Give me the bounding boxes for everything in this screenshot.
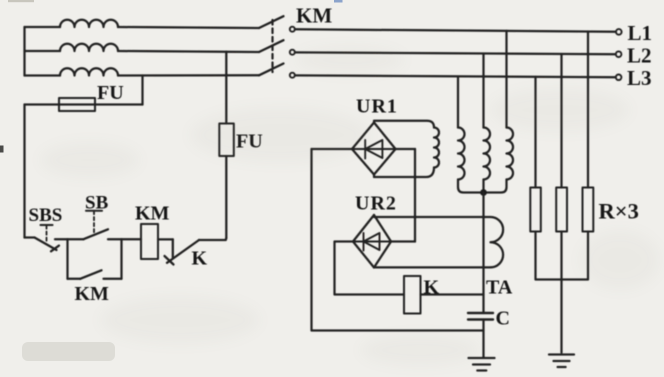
wire: KM coil to K contact [158,238,173,240]
resistor R1 lead from L3 [534,77,536,188]
KM fixed contact circle 1 [290,27,295,32]
wire: SB right terminal to KM coil [108,238,141,240]
wire: phase line 3 to KM contact [118,74,259,76]
wire: relay K to capacitor branch [421,293,484,295]
inductor: reactor winding 3 [507,128,514,180]
wire: riser to UR2 right vertex [391,240,415,242]
fuse FU1 wire (horizontal, control feed) [25,103,143,105]
wire: TA winding bottom to UR2 bottom [374,266,491,268]
contactor KM main contact blade 3 [259,64,284,76]
fuse FU2 body [219,124,234,157]
pushbutton SB (NO start) blade [84,229,109,239]
capacitor C top plate [468,312,493,314]
diode inside UR1: triangle [365,140,382,158]
wire: capacitor to ground [482,320,484,358]
diode inside UR2: triangle [364,233,380,250]
diode inside UR2: cathode bar [363,233,365,251]
svg-text:KM: KM [135,203,170,225]
inductor: reactor winding 2 [484,128,491,180]
wire: parallel branch left drop [66,239,68,279]
scan artifact: faint bleed-through patches [40,46,660,366]
scan artifact: left edge mark [0,146,4,153]
wire: phase line 2 right run to L2 [295,52,616,54]
pushbutton SBS actuator stem (dashed) [46,226,48,244]
wire: phase line 1 right run to L1 [295,29,616,31]
svg-text:KM: KM [296,4,332,28]
svg-text:TA: TA [486,277,513,299]
KM fixed contact circle 2 [290,50,295,55]
pushbutton SBS (NC stop): left lead [25,236,35,238]
wire: phase line 1 to KM contact [118,27,259,28]
wire: resistor 2 bottom [560,232,562,353]
scan artifact: blue tick top [334,0,343,3]
contact KM auxiliary (NO) blade [80,270,101,279]
rectifier U R 1 diamond [352,123,396,175]
terminal L1 circle [616,29,622,35]
pushbutton SB actuator bar [86,210,102,212]
wire: resistor bottoms to common bus [536,232,589,280]
inductor: motor winding phase 3 [60,68,118,75]
wire: FU2 down to K contact [225,156,227,238]
diode inside UR2: axis line [353,241,391,243]
contactor KM main contact blade 2 [259,40,284,52]
wire: phase line 1 left segment [25,26,61,28]
wire: KM aux branch bottom left [68,278,81,280]
node: star point junction dot [480,189,487,196]
pushbutton SBS actuator bar [41,224,53,226]
svg-text:L2: L2 [627,44,652,68]
terminal L2 circle [616,51,622,57]
KM contact linkage (dashed) [271,20,273,72]
contactor KM main contact blade 1 [259,16,284,28]
wire: reactor winding lead from L1 [505,31,507,128]
relay coil KM body [141,224,158,259]
svg-text:KM: KM [75,283,110,305]
wire: KM aux branch bottom right [104,278,122,280]
svg-text:L1: L1 [628,21,653,45]
wire: UR2 left vertex down to relay K [335,242,405,295]
rectifier U R 2 diamond [353,215,391,268]
inductor: motor winding phase 1 [60,20,118,27]
wire: left star bus of motor winding [23,27,25,76]
wire: winding 2 to star point [482,180,484,193]
svg-text:SB: SB [85,193,109,214]
relay coil K body [404,276,421,314]
svg-text:UR2: UR2 [355,193,397,215]
resistor R2 lead from L2 [560,54,562,188]
wire: UR1 top to feedback winding top [374,121,434,128]
pushbutton SBS blade [35,238,57,251]
wire: reactor winding lead from L3 [457,77,459,128]
fuse FU1 body [59,98,95,111]
wire: SBS to SB [55,238,84,240]
scan artifact: top-left edge mark [8,0,34,2]
wire: parallel branch right drop [120,239,122,279]
ground symbol (capacitor branch) [469,358,495,371]
svg-text:L3: L3 [627,66,652,90]
wire: left bus down and bottom bus to capacitor branch [312,149,484,331]
svg-text:K: K [424,277,440,299]
wire: UR1 right vertex to riser [396,148,416,150]
capacitor C bottom plate [468,318,493,320]
contact K (NC) fixed stub [172,239,174,257]
diode inside UR1: axis line [352,148,396,150]
wire: UR2 top to TA winding top [374,215,491,217]
resistor R3 body [583,188,594,232]
wire: tap from phase 2 down to FU2 [225,52,227,124]
svg-text:K: K [192,248,208,270]
KM fixed contact circle 3 [290,73,295,78]
ground symbol (resistor branch) [549,355,574,368]
wire: star point down to capacitor [482,193,484,314]
wire: feedback winding bottom to UR1 bottom [374,168,434,178]
resistor R1 body [530,188,541,232]
svg-text:SBS: SBS [29,205,63,226]
wire: phase line 2 to KM contact [118,51,259,52]
resistor R3 lead from L1 [587,32,589,188]
svg-text:UR1: UR1 [356,96,398,118]
svg-text:FU: FU [97,82,124,104]
contact K tick [165,256,174,265]
inductor: current transformer TA winding [491,217,504,267]
wire: left control bus down to SBS [23,105,25,238]
wire: K contact to right riser [199,238,226,240]
inductor: UR1 feedback winding [434,128,439,168]
inductor: motor winding phase 2 [60,44,118,51]
wire: UR1 left vertex to left bus [312,148,353,150]
inductor: reactor winding 1 [458,128,465,180]
pushbutton SBS contact tick [51,246,59,252]
wire: riser between UR1 and UR2 right vertices [414,149,416,242]
svg-text:C: C [496,308,510,330]
scan artifact: grey smudge bottom-left [22,342,115,361]
wire: reactor winding lead from L2 [482,54,484,128]
wire: drop from phase 3 to FU1 line [141,76,143,105]
resistor R2 body [556,188,567,232]
wire: reactor star bus [458,180,507,193]
svg-text:R×3: R×3 [599,199,639,224]
wire: phase line 3 right run to L3 [295,75,616,77]
terminal L3 circle [616,75,622,81]
contact K blade [167,240,199,263]
pushbutton SB actuator stem (dashed) [93,211,95,234]
wire: phase line 2 left segment [25,50,61,52]
wire: phase line 3 left segment [25,74,61,76]
diode inside UR1: cathode bar [364,140,366,159]
